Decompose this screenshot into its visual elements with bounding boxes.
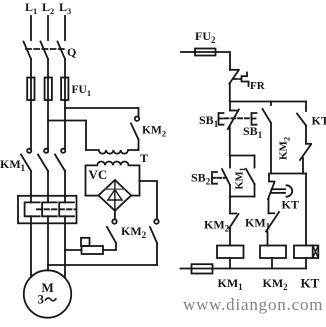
thermal relay FR NC contact: [229, 70, 248, 102]
pushbutton SB1 linkage dashed: [225, 117, 251, 119]
contactor KM1 main contact pole2: [38, 149, 48, 196]
svg-text:FR: FR: [250, 80, 266, 92]
contactor KM1 main contact pole1: [21, 149, 31, 196]
contactor KM2 NC label: [204, 218, 230, 234]
coil KT label: [301, 276, 320, 291]
pushbutton SB2 NO contact: [222, 156, 230, 197]
pushbutton SB1 lower label: [243, 124, 263, 140]
svg-text:Q: Q: [67, 45, 76, 59]
wire control top rail: [230, 101, 306, 103]
thermal relay FR heater box: [18, 196, 77, 224]
fuse FU1 pole1: [27, 78, 34, 101]
node L3 label: [59, 0, 71, 16]
svg-text:VC: VC: [89, 167, 108, 182]
contactor KM2 upper label: [142, 125, 166, 139]
coil KM2 label: [263, 276, 289, 292]
pushbutton SB1 second cap: [252, 113, 257, 125]
coil KT with delay marker: [294, 246, 318, 259]
rectifier bridge diamond: [99, 180, 132, 211]
wire Q pole3 to FU1: [64, 59, 66, 78]
contactor KM2 upper contact (transformer feed): [131, 117, 139, 151]
thermal relay FR heater element 1: [25, 196, 40, 224]
pushbutton SB1 NO contact: [263, 102, 272, 174]
fuse FU1 pole2: [45, 78, 52, 101]
contactor KM2 brake label: [121, 224, 147, 240]
pushbutton SB1 cap: [219, 113, 224, 125]
wire FU2 to FR contact: [216, 52, 231, 70]
pushbutton SB1 left label: [199, 113, 219, 129]
wire L3 drop to Q: [64, 16, 66, 40]
wire resistor to motor W line: [65, 249, 82, 251]
wire tap L2 to transformer primary: [48, 121, 86, 151]
pushbutton SB2 linkage dashed: [218, 177, 225, 179]
motor M label: [46, 298, 56, 301]
switch Q label: [67, 45, 76, 59]
switch Q pole 3 blade: [58, 42, 66, 60]
wire VC right to brake contact right: [140, 181, 158, 219]
fuse FU1 pole3: [61, 78, 68, 101]
coil KM1 label: [218, 276, 244, 292]
motor M 3~: [24, 270, 71, 317]
wire FR to motor U: [30, 223, 32, 277]
contactor KM1 NC contact (right): [266, 212, 279, 246]
fuse FU2 label: [195, 29, 216, 45]
rectifier VC enclosure with secondary winding on top: [86, 161, 140, 195]
wire mid connector rail: [271, 173, 306, 175]
contactor KM2 brake contact right: [150, 219, 159, 265]
wire FU1 pole2 to KM1 contact: [47, 100, 49, 148]
switch Q pole 1 blade: [24, 42, 32, 60]
wire control bottom rail: [181, 268, 307, 270]
node L2 label: [42, 0, 54, 16]
transformer T primary winding: [86, 150, 139, 154]
relay KT mid label: [282, 198, 299, 212]
relay KT NO contact (top right): [297, 102, 306, 144]
rectifier diode symbol: [106, 181, 125, 211]
contactor KM2 NC contact (right branch): [300, 144, 311, 174]
contactor KM1 rotated label: [235, 167, 248, 189]
fuse FU1 label: [72, 84, 92, 98]
fuse on bottom rail: [192, 264, 213, 273]
wire FR to motor W: [64, 223, 66, 277]
rectifier VC label: [89, 167, 108, 182]
svg-text:T: T: [140, 151, 148, 165]
coil KM2: [260, 246, 286, 259]
svg-text:KT: KT: [301, 276, 320, 291]
watermark www.diangon.com: [183, 295, 323, 314]
wire KT coil to bottom rail: [305, 258, 307, 269]
wire KM2 coil feed: [267, 245, 269, 247]
relay KT top label: [312, 114, 326, 128]
thermal relay FR contact label: [250, 80, 266, 92]
svg-text:KT: KT: [312, 114, 326, 128]
contactor KM1 NC label: [245, 216, 271, 232]
node branch rejoin: [230, 196, 255, 198]
wire rectifier output to brake contact: [114, 211, 116, 219]
pushbutton SB2 cap: [212, 172, 217, 184]
contactor KM2 NC interlock contact: [229, 197, 239, 246]
thermal relay FR heater element 2: [42, 196, 57, 224]
coil KM1: [217, 246, 244, 259]
wire FU1 pole1 to KM1 contact: [30, 100, 32, 148]
contactor KM2 rotated label: [278, 137, 292, 160]
wire FU1 pole3 to KM1 contact: [64, 100, 66, 148]
thermal relay FR linkage dashed: [37, 208, 76, 210]
svg-text:www.diangon.com: www.diangon.com: [183, 295, 323, 314]
switch Q pole 2 blade: [41, 42, 49, 60]
transformer T label: [140, 151, 148, 165]
pushbutton SB1 NC contact: [228, 102, 239, 156]
wire KT coil feed: [305, 174, 307, 246]
contactor KM1 main label: [0, 157, 26, 173]
fuse FU2: [195, 49, 216, 56]
wire tap L3 to KM2 upper contact: [65, 108, 139, 116]
wire control feed left: [181, 51, 195, 53]
wire KM1 coil to bottom rail: [229, 258, 231, 269]
contactor KM2 brake contact left: [103, 219, 117, 250]
wire L2 drop to Q: [47, 16, 49, 40]
svg-text:3: 3: [38, 292, 45, 307]
wire Q pole2 to FU1: [47, 59, 49, 78]
pushbutton SB2 label: [191, 171, 211, 187]
node L1 label: [25, 0, 37, 16]
wire brake return to motor V line: [48, 264, 157, 266]
svg-text:KT: KT: [282, 198, 299, 212]
relay KT delayed contact: [268, 174, 292, 214]
wire FR to motor V: [47, 223, 49, 270]
wire Q pole1 to FU1: [30, 59, 32, 78]
contactor KM1 main contact pole3: [55, 149, 65, 196]
thermal relay FR heater element 3: [59, 196, 74, 224]
contactor KM1 self-hold NO contact: [246, 156, 255, 197]
wire KM2 coil to bottom rail: [271, 258, 273, 269]
resistor R (braking, with tap): [81, 238, 103, 254]
node branch split: [230, 155, 255, 157]
wire L1 drop to Q: [30, 16, 32, 40]
switch Q linkage dashed: [26, 48, 66, 50]
